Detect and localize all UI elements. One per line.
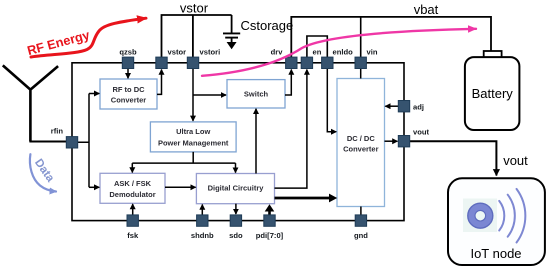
pin vstor (156, 48, 186, 69)
svg-text:shdnb: shdnb (191, 231, 214, 240)
pin qzsb (119, 48, 137, 69)
svg-text:rfin: rfin (51, 127, 64, 136)
wire Switch output to drv pin (285, 70, 291, 95)
pink energy-flow arrow (202, 29, 476, 76)
wire fsk to ASK/FSK (132, 204, 134, 215)
wire ASK/FSK to Digital Circuitry (165, 186, 196, 188)
wire ULP to ASK/FSK (131, 163, 133, 172)
RF Energy arrow (31, 18, 146, 57)
wire vin to DC/DC (360, 69, 362, 79)
pin rfin (51, 127, 78, 149)
pin vstori (187, 48, 220, 69)
svg-text:ASK / FSK: ASK / FSK (114, 179, 152, 188)
svg-text:DC / DC: DC / DC (347, 134, 376, 143)
vbat net wire (291, 17, 491, 60)
wire qzsb to RF-DC (127, 69, 129, 79)
pin shdnb (191, 215, 214, 240)
svg-text:gnd: gnd (354, 231, 368, 240)
wire en-enldo tie (307, 36, 327, 60)
wire vstori net vertical (192, 69, 194, 121)
svg-text:qzsb: qzsb (119, 48, 137, 57)
svg-text:vstor: vstor (168, 48, 187, 57)
svg-text:Power Management: Power Management (158, 139, 229, 148)
pin pdi[7:0] (256, 215, 284, 240)
svg-text:drv: drv (271, 48, 284, 57)
wire rfin to ASK/FSK input (89, 186, 99, 188)
pin en (301, 48, 322, 69)
svg-text:Digital Circuitry: Digital Circuitry (208, 184, 265, 193)
svg-text:en: en (313, 48, 322, 57)
pin fsk (127, 215, 139, 240)
svg-text:vstori: vstori (200, 48, 221, 57)
svg-text:pdi[7:0]: pdi[7:0] (256, 231, 284, 240)
pin sdo (229, 215, 243, 240)
svg-text:vout: vout (413, 128, 430, 137)
wire Digital Circuitry to sdo (235, 204, 237, 214)
wire vout external to IoT node (410, 141, 497, 175)
bus Digital Circuitry to DC/DC (275, 197, 330, 200)
svg-text:vout: vout (503, 153, 528, 168)
box ASK / FSK Demodulator (100, 173, 165, 203)
svg-text:enldo: enldo (333, 48, 354, 57)
wire shdnb to Digital Circuitry (201, 205, 203, 215)
pin adj (398, 101, 424, 112)
wire Digital Circuitry to Switch control (255, 109, 257, 174)
chip outer box (72, 63, 404, 221)
pin enldo (322, 48, 354, 69)
wire Digital Circuitry to en pin (275, 70, 307, 189)
wire DC/DC to gnd (360, 207, 362, 215)
wire rfin net (78, 94, 89, 188)
svg-text:vin: vin (367, 48, 378, 57)
svg-text:Converter: Converter (343, 145, 379, 154)
box DC / DC Converter (337, 79, 385, 207)
wire ULP distribution (132, 152, 235, 163)
svg-text:Switch: Switch (244, 90, 269, 99)
pin vin (355, 48, 378, 69)
svg-text:Ultra Low: Ultra Low (176, 127, 210, 136)
wire ULP to Digital Circuitry (235, 163, 237, 173)
wire adj to DC/DC (385, 105, 398, 107)
pin gnd (354, 215, 368, 240)
wire RF-DC output to vstor pin (157, 70, 162, 95)
IoT icon speaker donut (468, 203, 493, 228)
pin drv (271, 48, 297, 69)
wire rfin to RF-DC input (89, 93, 99, 95)
pin vout (398, 128, 429, 147)
svg-text:vbat: vbat (414, 2, 439, 17)
battery (465, 51, 520, 130)
wire vstori to Switch input (193, 94, 226, 96)
svg-text:Converter: Converter (111, 96, 147, 105)
box Ultra Low Power Management (150, 122, 236, 152)
wire vin leg (360, 17, 362, 60)
vstor top net wire (162, 15, 232, 60)
box RF to DC Converter (100, 79, 157, 109)
antenna (3, 65, 58, 141)
svg-text:vstor: vstor (180, 1, 209, 16)
IoT node box (448, 178, 545, 265)
IoT icon signal arcs (499, 189, 525, 243)
svg-text:Demodulator: Demodulator (109, 190, 155, 199)
capacitor Cstorage (223, 15, 240, 49)
Data arrow (30, 154, 56, 191)
svg-text:RF to DC: RF to DC (112, 85, 145, 94)
svg-text:adj: adj (413, 102, 424, 111)
svg-text:Battery: Battery (472, 86, 514, 101)
wire antenna to rfin (29, 141, 66, 143)
IoT icon background tile (463, 199, 497, 233)
box Switch (227, 80, 285, 108)
svg-text:sdo: sdo (229, 231, 243, 240)
wire DC/DC to vout pin (385, 140, 398, 142)
bus pdi to Digital Circuitry (268, 212, 271, 215)
box Digital Circuitry (196, 174, 274, 204)
svg-text:Cstorage: Cstorage (241, 18, 294, 33)
svg-text:IoT node: IoT node (470, 246, 521, 261)
svg-text:fsk: fsk (127, 231, 139, 240)
wire enldo to DC/DC (327, 69, 336, 132)
